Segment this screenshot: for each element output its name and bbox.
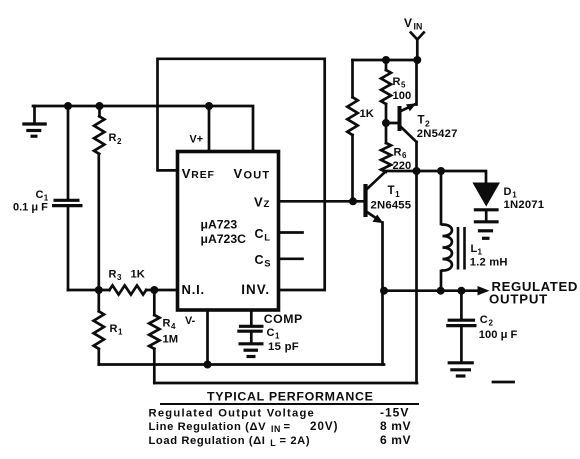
svg-text:8 mV: 8 mV <box>380 419 411 433</box>
svg-text:V: V <box>254 195 263 210</box>
svg-text:V-: V- <box>185 315 196 327</box>
svg-text:2N6455: 2N6455 <box>371 200 412 212</box>
label C1 15pF <box>267 327 300 353</box>
label VZ pin <box>254 195 270 211</box>
svg-text:S: S <box>264 258 270 269</box>
svg-text:V: V <box>404 16 412 30</box>
svg-text:3: 3 <box>117 273 122 282</box>
transistor T2 2N5427 <box>386 60 417 383</box>
label R4 1M <box>163 318 179 346</box>
svg-text:IN: IN <box>271 424 281 434</box>
label R5 100 <box>393 76 412 102</box>
svg-text:2: 2 <box>425 119 430 129</box>
resistor R3 <box>109 285 146 294</box>
label R2 <box>109 132 123 146</box>
svg-text:L: L <box>264 232 270 243</box>
resistor 1K <box>347 60 357 201</box>
svg-text:= 2A): = 2A) <box>280 435 311 447</box>
svg-text:100 μ F: 100 μ F <box>479 329 518 341</box>
svg-text:1K: 1K <box>131 269 145 281</box>
label CS pin <box>255 253 271 269</box>
wire V- pin down <box>206 310 209 365</box>
table typical performance <box>149 390 420 448</box>
capacitor C1 15pF on COMP <box>237 310 263 342</box>
label R3 1K <box>109 269 145 283</box>
stray dash mark <box>493 381 514 384</box>
svg-text:1: 1 <box>275 332 280 341</box>
svg-text:2: 2 <box>117 137 122 146</box>
svg-text:Line Regulation (ΔV: Line Regulation (ΔV <box>149 421 267 433</box>
svg-text:R: R <box>110 323 118 335</box>
resistor R6 <box>381 123 391 172</box>
label D1 1N2071 <box>504 186 545 211</box>
svg-text:2: 2 <box>489 319 494 328</box>
svg-text:2N5427: 2N5427 <box>417 128 458 140</box>
svg-text:R: R <box>163 318 171 330</box>
label R1 <box>110 323 124 337</box>
label C2 100uF <box>479 314 518 341</box>
svg-text:R: R <box>393 76 401 88</box>
wire feedback rail bottom <box>154 382 417 385</box>
svg-text:100: 100 <box>393 90 412 102</box>
svg-text:N.I.: N.I. <box>182 282 205 297</box>
node VIN terminal <box>404 16 424 60</box>
label L1 1.2mH <box>470 243 508 269</box>
svg-text:1: 1 <box>118 328 123 337</box>
svg-text:C: C <box>255 227 264 241</box>
wire regulated output line <box>384 286 490 295</box>
svg-text:V: V <box>234 166 243 181</box>
wire collector node to D1 <box>386 171 487 182</box>
svg-text:OUTPUT: OUTPUT <box>489 292 548 307</box>
svg-text:L: L <box>270 438 276 448</box>
resistor R1 <box>94 290 104 365</box>
label CL pin <box>255 227 271 243</box>
svg-text:1: 1 <box>395 189 400 199</box>
svg-text:1K: 1K <box>360 108 374 120</box>
svg-text:C: C <box>267 327 275 339</box>
svg-text:Regulated Output Voltage: Regulated Output Voltage <box>149 407 316 419</box>
resistor R2 <box>94 106 104 290</box>
svg-text:1M: 1M <box>163 334 179 346</box>
svg-text:C: C <box>480 314 488 326</box>
inductor L1 1.2mH <box>441 171 465 291</box>
capacitor C1 0.1uF <box>52 106 83 290</box>
svg-text:T: T <box>388 185 395 197</box>
svg-text:L: L <box>471 243 478 255</box>
svg-text:R: R <box>109 132 117 144</box>
wire CL stub <box>279 231 303 234</box>
wire ground rail top-left to VOUT pin <box>33 106 253 150</box>
capacitor C2 100uF <box>446 291 476 361</box>
svg-text:Z: Z <box>264 199 270 210</box>
wire VZ pin to T1 base <box>279 200 366 203</box>
svg-text:6 mV: 6 mV <box>380 433 411 447</box>
op-amp U1 uA723 regulator IC box <box>178 152 279 311</box>
svg-text:V: V <box>182 166 191 181</box>
svg-text:6: 6 <box>402 151 407 160</box>
wire CS stub <box>279 257 303 260</box>
svg-text:1N2071: 1N2071 <box>504 199 545 211</box>
svg-text:REF: REF <box>191 170 214 181</box>
svg-text:INV.: INV. <box>241 282 270 297</box>
svg-text:-15V: -15V <box>380 405 409 419</box>
svg-text:C: C <box>36 189 44 201</box>
ground G1 top-left <box>22 106 47 136</box>
svg-text:OUT: OUT <box>244 170 271 182</box>
svg-text:1.2 mH: 1.2 mH <box>470 257 508 269</box>
svg-text:C: C <box>255 253 264 267</box>
label C1 <box>13 189 49 214</box>
svg-text:0.1 μ F: 0.1 μ F <box>13 202 48 214</box>
svg-text:R: R <box>109 269 117 281</box>
svg-text:TYPICAL PERFORMANCE: TYPICAL PERFORMANCE <box>207 390 374 404</box>
svg-text:COMP: COMP <box>264 312 303 326</box>
ground G4 under C2 <box>448 363 474 376</box>
svg-text:T: T <box>418 115 425 127</box>
svg-text:D: D <box>504 186 512 198</box>
diode D1 1N2071 <box>472 183 500 221</box>
label T1 2N6455 <box>371 185 412 212</box>
svg-text:Load Regulation (ΔI: Load Regulation (ΔI <box>149 435 266 447</box>
label VOUT pin <box>234 166 271 182</box>
wire VREF to INV loop <box>158 59 325 290</box>
label REGULATED OUTPUT <box>489 279 578 307</box>
svg-text:IN: IN <box>414 22 423 32</box>
label R6 220 <box>393 147 412 173</box>
resistor R5 <box>381 60 391 123</box>
resistor R4 <box>149 290 159 383</box>
transistor T1 2N6455 <box>366 172 386 365</box>
wire VIN rail <box>353 59 418 62</box>
svg-text:4: 4 <box>171 322 176 331</box>
svg-text:1: 1 <box>478 248 483 257</box>
svg-text:R: R <box>394 147 402 159</box>
svg-text:V+: V+ <box>190 134 204 146</box>
label VREF pin <box>182 166 215 181</box>
wire V- rail <box>99 363 384 366</box>
wire N.I. rail <box>68 289 109 292</box>
svg-text:5: 5 <box>401 81 406 90</box>
ground G2 under COMP cap <box>239 344 264 357</box>
svg-text:μA723C: μA723C <box>201 232 247 246</box>
label T2 2N5427 <box>417 115 458 141</box>
ground G3 under D1 <box>474 222 499 239</box>
wire V+ pin vertical <box>208 106 211 150</box>
svg-text:20V): 20V) <box>310 420 339 433</box>
svg-text:15 pF: 15 pF <box>268 341 299 353</box>
svg-text:=: = <box>284 421 291 433</box>
svg-text:μA723: μA723 <box>201 218 238 232</box>
